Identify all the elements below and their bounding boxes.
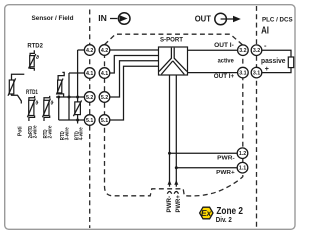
svg-text:Sensor / Field: Sensor / Field [32,15,74,22]
svg-text:ϑ: ϑ [36,55,39,61]
svg-text:IN: IN [98,13,107,23]
svg-text:active: active [218,58,234,65]
svg-text:PWR+: PWR+ [216,170,235,176]
svg-text:4.2: 4.2 [86,48,93,54]
svg-text:PWR+: PWR+ [175,195,182,213]
svg-text:1.1: 1.1 [239,166,246,172]
svg-text:2-wire: 2-wire [32,125,38,138]
svg-text:3.2: 3.2 [253,48,260,54]
svg-text:5.1: 5.1 [101,118,108,124]
svg-text:PWR-: PWR- [217,155,235,161]
svg-text:4.1: 4.1 [86,71,93,77]
svg-text:2-wire: 2-wire [47,125,53,138]
svg-text:+: + [265,66,269,73]
svg-text:Div. 2: Div. 2 [216,215,232,224]
svg-text:Poti: Poti [17,126,23,136]
svg-text:3-wire: 3-wire [65,127,71,140]
svg-text:ϑ: ϑ [35,100,38,106]
svg-text:1.2: 1.2 [239,151,246,157]
svg-text:ϑ: ϑ [51,100,54,106]
svg-text:5.1: 5.1 [86,118,93,124]
svg-text:Ex: Ex [201,209,212,218]
svg-text:OUT: OUT [195,14,212,24]
svg-text:5.2: 5.2 [101,95,108,101]
svg-text:3.2: 3.2 [239,48,246,54]
svg-text:5.2: 5.2 [86,95,93,101]
svg-text:RTD1: RTD1 [26,89,38,96]
svg-text:3.1: 3.1 [253,71,260,77]
svg-text:OUT I-: OUT I- [214,42,234,49]
svg-text:S-PORT: S-PORT [160,37,183,44]
svg-text:PLC / DCS: PLC / DCS [262,16,293,23]
svg-text:RTD2: RTD2 [27,43,43,50]
svg-text:PWR-: PWR- [166,196,173,213]
svg-text:OUT I+: OUT I+ [214,73,235,80]
svg-text:3.1: 3.1 [239,71,246,77]
svg-text:4.2: 4.2 [101,48,108,54]
svg-text:AI: AI [261,26,269,37]
svg-text:4.1: 4.1 [101,71,108,77]
svg-text:passive: passive [261,58,286,65]
svg-text:4-wire: 4-wire [79,127,85,140]
